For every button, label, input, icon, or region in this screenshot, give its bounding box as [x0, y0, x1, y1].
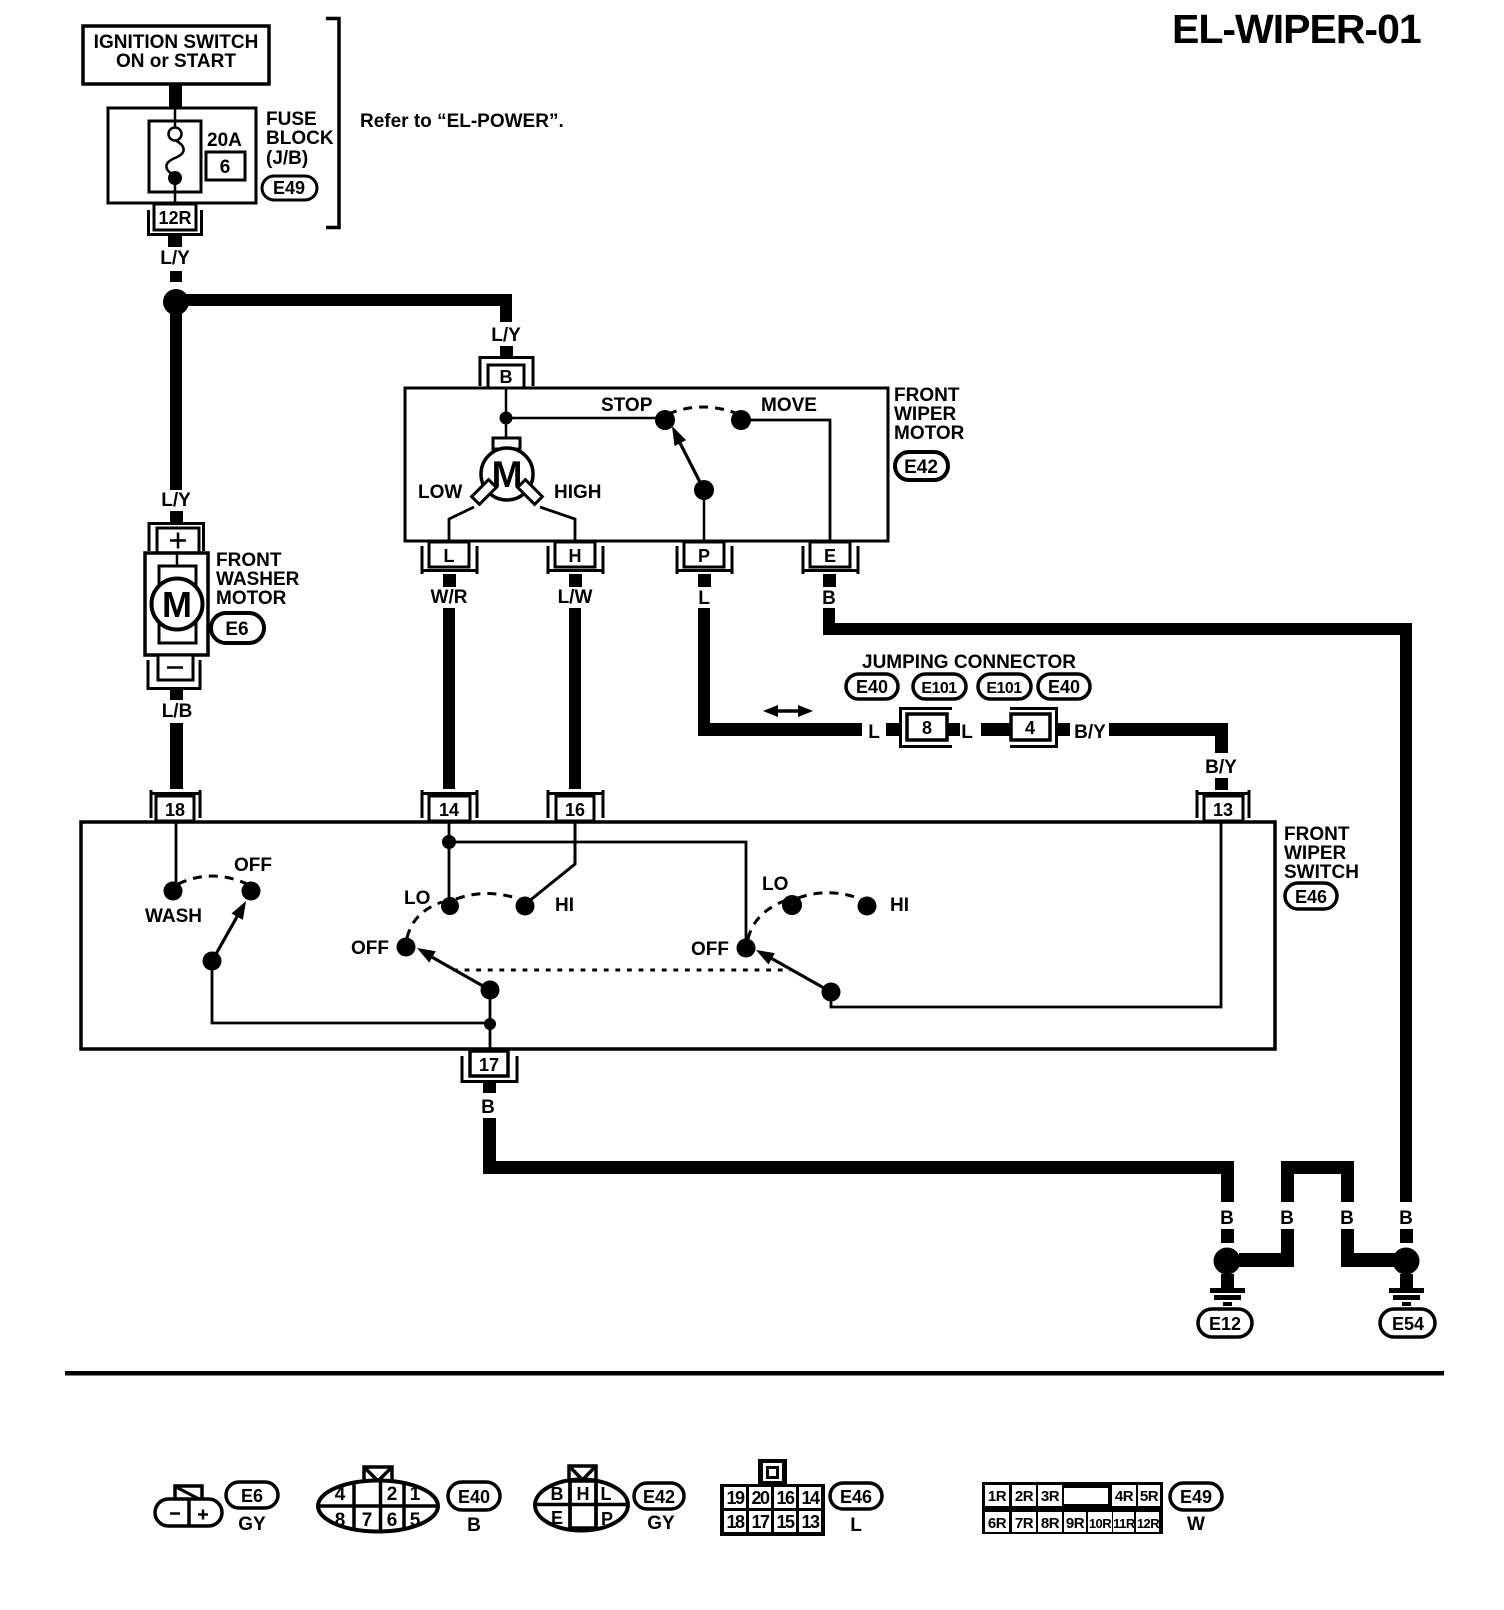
connector 16 on switch: [548, 790, 603, 821]
legend oval E49: [1170, 1483, 1222, 1510]
wire junction down to washer motor: [170, 310, 182, 490]
legend oval E42: [634, 1483, 684, 1509]
svg-text:WASHER: WASHER: [216, 569, 300, 590]
svg-text:MOTOR: MOTOR: [894, 423, 965, 444]
OFF contact dot (wiper2): [737, 939, 756, 958]
svg-text:4: 4: [335, 1484, 346, 1505]
svg-text:E40: E40: [856, 677, 888, 697]
connector 13 on switch: [1197, 790, 1249, 821]
svg-text:20: 20: [751, 1488, 770, 1508]
svg-text:L/W: L/W: [558, 587, 593, 608]
fuse number 6 box: [206, 152, 245, 180]
svg-text:18: 18: [165, 800, 185, 820]
svg-text:OFF: OFF: [234, 855, 272, 876]
HI contact dot (wiper1): [516, 897, 535, 916]
legend E6 connector face: [155, 1486, 222, 1526]
legend oval E40: [448, 1482, 500, 1510]
svg-text:E101: E101: [986, 680, 1022, 697]
svg-text:(J/B): (J/B): [266, 148, 308, 169]
svg-text:8R: 8R: [1041, 1515, 1060, 1532]
svg-text:E101: E101: [921, 680, 957, 697]
wire arm to 17: [489, 990, 492, 1048]
wire stub to connector 8: [886, 723, 900, 736]
svg-text:L: L: [444, 546, 455, 566]
svg-text:B: B: [1340, 1208, 1354, 1229]
node dot above 17: [484, 1018, 496, 1030]
svg-text:4R: 4R: [1115, 1488, 1134, 1505]
svg-text:LO: LO: [404, 888, 430, 909]
wire 17 to grounds: [483, 1118, 496, 1173]
ground jumper n-wire: [1281, 1161, 1354, 1174]
legend oval E6: [226, 1482, 278, 1508]
junction node dot: [163, 289, 189, 315]
svg-text:11R: 11R: [1113, 1516, 1136, 1531]
svg-text:17: 17: [751, 1512, 770, 1532]
label FRONT WIPER SWITCH: [1284, 824, 1359, 883]
svg-text:E: E: [824, 546, 836, 566]
wire 2 L to E12: [1281, 1229, 1294, 1267]
ground oval E12: [1198, 1309, 1252, 1337]
wire stub above B connector: [500, 346, 513, 357]
svg-text:20A: 20A: [207, 130, 242, 151]
svg-text:2R: 2R: [1015, 1488, 1034, 1505]
svg-text:E6: E6: [241, 1486, 263, 1506]
wire stub under L/Y: [170, 271, 182, 282]
wire B into motor: [505, 388, 508, 438]
svg-text:HI: HI: [890, 895, 909, 916]
svg-text:FUSE: FUSE: [266, 109, 317, 130]
dashed curve OFF-LO (wiper2): [748, 901, 784, 939]
WASH contact dot: [164, 882, 183, 901]
svg-text:BLOCK: BLOCK: [266, 128, 334, 149]
wire 18 to WASH contact: [175, 822, 178, 885]
node dot at B: [500, 412, 513, 425]
wire L/B down to 18: [170, 723, 183, 789]
dashed arc LO-HI (wiper2): [798, 893, 861, 899]
wire between L and connector 4: [981, 723, 1011, 736]
legend E49 connector face: [982, 1482, 1163, 1534]
svg-text:1: 1: [410, 1484, 421, 1505]
wire wash arm to node: [212, 961, 490, 1023]
wire P down and right to jumping connector: [698, 608, 710, 736]
connector oval E46 label: [1285, 883, 1337, 909]
ground oval E54: [1380, 1309, 1435, 1337]
label FRONT WIPER MOTOR: [894, 385, 965, 444]
svg-text:EL-WIPER-01: EL-WIPER-01: [1172, 6, 1421, 52]
double arrow symbol: [763, 705, 813, 717]
svg-text:M: M: [162, 584, 192, 625]
svg-text:L: L: [601, 1484, 612, 1504]
wire MOVE to E pin: [741, 420, 830, 541]
svg-text:MOTOR: MOTOR: [216, 588, 287, 609]
svg-text:L: L: [698, 588, 710, 609]
svg-text:L: L: [961, 722, 973, 743]
fuse 20A symbol: [149, 109, 201, 204]
wiper2 switch arm with arrow: [756, 950, 841, 1002]
svg-text:E49: E49: [273, 178, 305, 198]
svg-text:B: B: [467, 1515, 481, 1536]
svg-text:19: 19: [726, 1488, 745, 1508]
washer motor - terminal: [148, 655, 200, 689]
svg-text:13: 13: [1213, 800, 1233, 820]
HI contact dot (wiper2): [858, 897, 877, 916]
svg-text:7R: 7R: [1015, 1515, 1034, 1532]
svg-text:B: B: [822, 588, 836, 609]
svg-text:8: 8: [335, 1510, 346, 1531]
wiper1 switch arm with arrow: [417, 948, 500, 1000]
svg-text:P: P: [698, 546, 710, 566]
wire stub below -: [170, 689, 183, 700]
svg-text:Refer to “EL-POWER”.: Refer to “EL-POWER”.: [360, 111, 564, 132]
connector 18 on switch: [151, 790, 200, 821]
svg-text:15: 15: [776, 1512, 795, 1532]
svg-text:P: P: [601, 1509, 613, 1529]
connector oval E40 (jc 1): [846, 674, 898, 699]
svg-text:6R: 6R: [988, 1515, 1007, 1532]
svg-text:JUMPING CONNECTOR: JUMPING CONNECTOR: [862, 652, 1076, 673]
svg-text:WIPER: WIPER: [894, 404, 957, 425]
svg-text:HIGH: HIGH: [554, 482, 602, 503]
wire junction to wiper motor branch: [176, 294, 506, 306]
wire 14 into switch: [448, 822, 451, 898]
svg-text:8: 8: [922, 718, 932, 738]
wire E down right and to far right edge: [823, 608, 835, 635]
svg-text:E6: E6: [225, 619, 248, 640]
node dot under 14: [442, 835, 456, 849]
svg-text:SWITCH: SWITCH: [1284, 862, 1359, 883]
LO contact dot (wiper1): [441, 897, 459, 915]
svg-text:L/Y: L/Y: [160, 248, 190, 269]
svg-text:E12: E12: [1209, 1314, 1241, 1334]
ground node dot E12: [1214, 1248, 1241, 1275]
svg-text:B/Y: B/Y: [1074, 722, 1106, 743]
bracket refer: [326, 19, 339, 228]
svg-text:10R: 10R: [1089, 1516, 1112, 1531]
svg-text:H: H: [569, 546, 582, 566]
svg-text:E42: E42: [904, 457, 938, 478]
front washer motor body E6: [145, 553, 208, 655]
svg-text:LO: LO: [762, 874, 788, 895]
svg-text:18: 18: [726, 1512, 745, 1532]
washer motor + terminal: [149, 524, 204, 554]
ground symbol E12: [1210, 1274, 1245, 1306]
wire stub above 13: [1215, 778, 1228, 790]
svg-text:B: B: [1220, 1208, 1234, 1229]
stub to E12 dot: [1221, 1229, 1234, 1243]
svg-text:E46: E46: [1295, 887, 1327, 907]
separator line: [65, 1371, 1444, 1376]
connector B on wiper motor: [480, 358, 533, 389]
wire LOW brush to L pin: [449, 507, 474, 541]
dashed arc LO-HI (wiper1): [456, 894, 519, 900]
wire stub right of 8: [947, 723, 960, 736]
svg-text:GY: GY: [647, 1513, 675, 1534]
fuse block (J/B) box: [108, 108, 256, 203]
svg-text:2: 2: [387, 1484, 398, 1505]
svg-text:1R: 1R: [988, 1488, 1007, 1505]
svg-text:12R: 12R: [1137, 1516, 1160, 1531]
svg-text:17: 17: [479, 1055, 499, 1075]
wire node to STOP contact: [506, 417, 660, 420]
wire 13 down and to right arm: [831, 822, 1221, 1007]
STOP contact dot: [655, 410, 675, 430]
svg-text:E54: E54: [1392, 1314, 1424, 1334]
park switch arm with arrow: [672, 426, 714, 500]
svg-text:W: W: [1187, 1514, 1205, 1535]
wire stub right of 4: [1056, 723, 1070, 736]
svg-text:FRONT: FRONT: [894, 385, 960, 406]
svg-text:B: B: [481, 1097, 495, 1118]
svg-text:9R: 9R: [1066, 1515, 1085, 1532]
wire HIGH brush to H pin: [540, 507, 575, 541]
connector P on motor: [677, 542, 732, 587]
svg-text:W/R: W/R: [431, 587, 468, 608]
svg-text:B: B: [551, 1484, 564, 1504]
svg-text:B: B: [500, 367, 513, 387]
wire L/W down to 16: [569, 608, 581, 789]
dashed arc STOP-MOVE: [668, 407, 738, 414]
svg-text:MOVE: MOVE: [761, 395, 817, 416]
ground symbol E54: [1389, 1274, 1424, 1306]
wire W/R down to 14: [443, 608, 455, 789]
connector oval E101 (jc 2): [913, 674, 966, 699]
svg-text:L: L: [868, 722, 880, 743]
svg-text:5R: 5R: [1140, 1488, 1159, 1505]
front wiper switch box E46: [81, 822, 1275, 1049]
svg-text:14: 14: [439, 800, 459, 820]
svg-text:WIPER: WIPER: [1284, 843, 1347, 864]
wire 16 to HI contact: [528, 822, 575, 902]
svg-text:H: H: [577, 1484, 590, 1504]
svg-text:E42: E42: [643, 1487, 675, 1507]
wire B/Y to 13 connector: [1109, 723, 1228, 736]
svg-text:5: 5: [410, 1510, 421, 1531]
svg-text:B: B: [1399, 1208, 1413, 1229]
svg-text:12R: 12R: [158, 208, 191, 228]
stub to E54 dot: [1400, 1229, 1413, 1243]
svg-text:6: 6: [220, 157, 231, 178]
svg-text:L: L: [850, 1515, 862, 1536]
legend E46 connector face: [720, 1459, 825, 1536]
svg-text:B: B: [1280, 1208, 1294, 1229]
OFF contact dot (wash): [242, 882, 261, 901]
legend E42 connector face: [535, 1466, 628, 1531]
svg-text:L/B: L/B: [162, 701, 193, 722]
MOVE contact dot: [731, 410, 751, 430]
svg-text:E40: E40: [1048, 677, 1080, 697]
svg-text:ON or START: ON or START: [116, 51, 236, 72]
svg-text:HI: HI: [555, 895, 574, 916]
jumping connector pin 8: [901, 709, 953, 747]
svg-text:6: 6: [387, 1510, 398, 1531]
connector oval E6 label: [211, 613, 264, 643]
svg-text:OFF: OFF: [351, 938, 389, 959]
svg-text:FRONT: FRONT: [216, 550, 282, 571]
connector 14 on switch: [422, 790, 477, 821]
svg-text:L/Y: L/Y: [161, 490, 191, 511]
wire 3 L to E54: [1341, 1229, 1354, 1267]
connector 12R: [149, 204, 202, 247]
ground node dot E54: [1393, 1248, 1420, 1275]
wire stub above +: [170, 511, 183, 522]
legend E40 connector face: [318, 1467, 438, 1532]
svg-text:13: 13: [801, 1512, 820, 1532]
svg-text:LOW: LOW: [418, 482, 462, 503]
svg-text:4: 4: [1025, 718, 1035, 738]
label FUSE BLOCK (J/B): [266, 109, 334, 169]
svg-text:B/Y: B/Y: [1205, 757, 1237, 778]
svg-text:IGNITION SWITCH: IGNITION SWITCH: [94, 32, 259, 53]
svg-text:FRONT: FRONT: [1284, 824, 1350, 845]
dotted interlock line: [453, 969, 790, 972]
ignition switch box: [83, 26, 269, 84]
wash switch arm with arrow: [203, 901, 247, 971]
connector oval E101 (jc 3): [978, 674, 1031, 699]
svg-text:E: E: [551, 1508, 563, 1528]
connector oval E49: [262, 176, 317, 200]
svg-text:E40: E40: [458, 1487, 490, 1507]
wiper motor M symbol: [472, 438, 543, 504]
svg-text:16: 16: [565, 800, 585, 820]
legend oval E46: [830, 1483, 882, 1509]
jumping connector pin 4: [1010, 709, 1057, 747]
connector 17 under switch: [462, 1051, 517, 1093]
dashed arc WASH-OFF: [178, 876, 247, 884]
svg-text:16: 16: [776, 1488, 795, 1508]
connector E on motor: [803, 542, 858, 587]
LO contact dot (wiper2): [782, 895, 802, 915]
svg-text:L/Y: L/Y: [491, 325, 521, 346]
svg-text:3R: 3R: [1041, 1488, 1060, 1505]
svg-text:STOP: STOP: [601, 395, 653, 416]
connector oval E40 (jc 4): [1038, 674, 1090, 699]
svg-text:E46: E46: [840, 1487, 872, 1507]
OFF contact dot (wiper1): [397, 938, 416, 957]
wire node across to right off branch: [449, 842, 746, 940]
svg-text:7: 7: [362, 1510, 373, 1531]
front wiper motor box E42: [405, 388, 888, 541]
connector oval E42 label: [895, 452, 948, 480]
svg-text:OFF: OFF: [691, 939, 729, 960]
svg-text:14: 14: [801, 1488, 820, 1508]
connector H on motor: [548, 542, 603, 587]
connector L on motor: [422, 542, 477, 587]
label FRONT WASHER MOTOR: [216, 550, 300, 609]
wire ignition to fuse block: [169, 84, 182, 109]
svg-text:WASH: WASH: [145, 906, 202, 927]
wire arm to P pin: [703, 490, 706, 541]
svg-text:GY: GY: [238, 1514, 266, 1535]
svg-text:E49: E49: [1180, 1487, 1212, 1507]
dashed curve OFF-LO (wiper1): [407, 902, 442, 938]
